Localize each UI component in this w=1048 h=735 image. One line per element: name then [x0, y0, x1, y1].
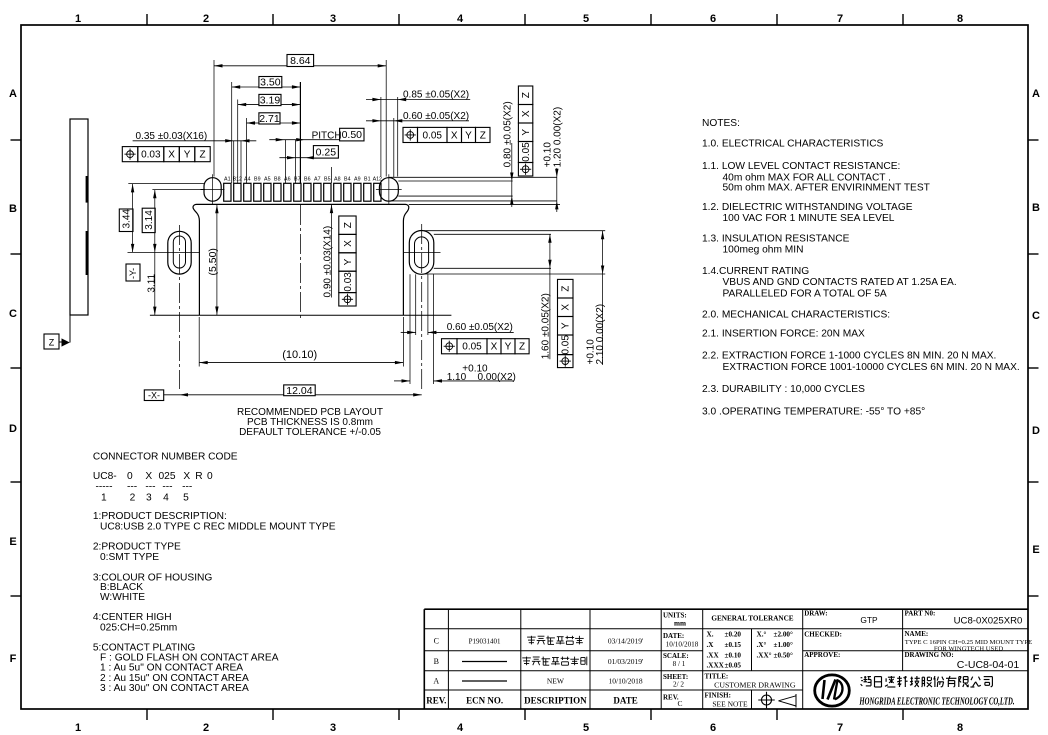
svg-text:1.4.CURRENT RATING: 1.4.CURRENT RATING: [702, 266, 809, 277]
svg-text:CHECKED:: CHECKED:: [804, 630, 842, 638]
svg-text:SCALE:: SCALE:: [663, 652, 689, 660]
svg-text:X: X: [521, 110, 532, 117]
svg-text:C: C: [677, 699, 682, 708]
svg-text:UC8-: UC8-: [93, 471, 117, 482]
svg-text:---: ---: [182, 482, 192, 493]
svg-text:C: C: [9, 308, 17, 320]
svg-text:1.1. LOW LEVEL CONTACT RESISTA: 1.1. LOW LEVEL CONTACT RESISTANCE:: [702, 161, 900, 172]
svg-text:2:PRODUCT TYPE: 2:PRODUCT TYPE: [93, 542, 181, 553]
svg-text:DESCRIPTION: DESCRIPTION: [524, 696, 587, 706]
svg-text:1.20 0.00(X2): 1.20 0.00(X2): [553, 107, 564, 168]
svg-text:0.90 ±0.03(X14): 0.90 ±0.03(X14): [323, 226, 334, 298]
svg-text:3: 3: [330, 13, 336, 25]
svg-text:0:SMT TYPE: 0:SMT TYPE: [100, 552, 159, 563]
svg-text:B1: B1: [364, 176, 371, 182]
svg-text:025: 025: [159, 471, 176, 482]
svg-text:1: 1: [75, 722, 81, 734]
svg-text:8 / 1: 8 / 1: [673, 660, 686, 668]
svg-text:0.05: 0.05: [561, 335, 572, 355]
svg-text:8: 8: [957, 13, 963, 25]
svg-text:0: 0: [127, 471, 133, 482]
svg-text:10/10/2018: 10/10/2018: [609, 677, 643, 686]
svg-text:10/10/2018: 10/10/2018: [666, 640, 699, 648]
svg-text:X: X: [451, 130, 458, 141]
svg-text:0.03: 0.03: [141, 150, 161, 161]
svg-text:F: F: [10, 653, 17, 665]
svg-text:X.°: X.°: [757, 631, 767, 639]
svg-text:B7: B7: [294, 176, 301, 182]
svg-text:C: C: [1032, 310, 1040, 322]
svg-text:8: 8: [957, 722, 963, 734]
svg-text:1: 1: [101, 492, 107, 503]
svg-text:7: 7: [837, 13, 843, 25]
svg-text:GENERAL TOLERANCE: GENERAL TOLERANCE: [711, 615, 793, 623]
svg-text:REV.: REV.: [426, 696, 446, 706]
svg-text:3 : Au 30u" ON CONTACT AREA: 3 : Au 30u" ON CONTACT AREA: [100, 683, 249, 694]
svg-text:0.03: 0.03: [343, 272, 354, 292]
svg-text:8.64: 8.64: [290, 55, 311, 67]
svg-text:B8: B8: [274, 176, 281, 182]
svg-text:ECN NO.: ECN NO.: [466, 696, 503, 706]
svg-text:SEE NOTE: SEE NOTE: [712, 699, 748, 708]
svg-text:DEFAULT TOLERANCE +/-0.05: DEFAULT TOLERANCE +/-0.05: [239, 427, 381, 438]
svg-text:0.05: 0.05: [423, 130, 443, 141]
svg-text:6: 6: [710, 722, 716, 734]
svg-text:DRAW:: DRAW:: [804, 609, 827, 617]
svg-text:4: 4: [163, 492, 169, 503]
svg-text:B: B: [9, 203, 17, 215]
svg-text:A9: A9: [354, 176, 361, 182]
svg-text:2.10 0.00(X2): 2.10 0.00(X2): [595, 304, 606, 365]
svg-text:B9: B9: [254, 176, 261, 182]
svg-text:Z: Z: [199, 150, 205, 161]
svg-text:5: 5: [583, 13, 589, 25]
svg-text:0: 0: [207, 471, 213, 482]
svg-text:2: 2: [130, 492, 136, 503]
svg-text:X: X: [343, 240, 354, 247]
svg-text:E: E: [1032, 544, 1039, 556]
svg-text:REV.: REV.: [663, 694, 679, 702]
svg-text:1: 1: [75, 13, 81, 25]
svg-text:4:CENTER HIGH: 4:CENTER HIGH: [93, 612, 172, 623]
svg-text:0.05: 0.05: [462, 342, 482, 353]
svg-text:4: 4: [457, 722, 464, 734]
svg-text:100meg ohm MIN: 100meg ohm MIN: [723, 245, 804, 256]
svg-text:B: B: [1032, 202, 1040, 214]
svg-text:X: X: [168, 150, 175, 161]
svg-text:A1: A1: [224, 176, 231, 182]
svg-text:1.60 ±0.05(X2): 1.60 ±0.05(X2): [541, 293, 552, 359]
svg-text:Z: Z: [561, 286, 572, 292]
svg-text:mm: mm: [674, 620, 686, 628]
svg-text:D: D: [1032, 425, 1040, 437]
svg-text:VBUS AND GND CONTACTS RATED AT: VBUS AND GND CONTACTS RATED AT 1.25A EA.: [723, 277, 957, 288]
svg-text:B4: B4: [344, 176, 351, 182]
svg-text:2.1. INSERTION FORCE: 20N MAX: 2.1. INSERTION FORCE: 20N MAX: [702, 329, 865, 340]
svg-text:0.50: 0.50: [342, 129, 363, 141]
svg-text:3.50: 3.50: [260, 77, 281, 89]
svg-text:3.14: 3.14: [144, 210, 155, 230]
svg-text:X: X: [183, 471, 190, 482]
svg-text:2: 2: [203, 722, 209, 734]
svg-text:1.10: 1.10: [447, 372, 467, 383]
svg-text:1:PRODUCT DESCRIPTION:: 1:PRODUCT DESCRIPTION:: [93, 511, 227, 522]
svg-text:025:CH=0.25mm: 025:CH=0.25mm: [100, 623, 177, 634]
svg-text:C-UC8-04-01: C-UC8-04-01: [957, 659, 1020, 671]
svg-text:---: ---: [127, 482, 137, 493]
svg-text:0.60 ±0.05(X2): 0.60 ±0.05(X2): [403, 111, 469, 122]
svg-text:3: 3: [146, 492, 152, 503]
svg-text:Y: Y: [561, 322, 572, 329]
svg-text:6: 6: [710, 13, 716, 25]
svg-text:±1.00°: ±1.00°: [774, 641, 794, 649]
svg-text:A7: A7: [314, 176, 321, 182]
svg-text:X: X: [491, 342, 498, 353]
svg-text:R: R: [195, 471, 202, 482]
svg-text:EXTRACTION FORCE 1001-10000 CY: EXTRACTION FORCE 1001-10000 CYCLES 6N MI…: [723, 362, 1020, 373]
svg-text:GTP: GTP: [860, 615, 878, 625]
svg-text:---: ---: [145, 482, 155, 493]
svg-text:Z: Z: [49, 338, 55, 348]
svg-text:±0.50°: ±0.50°: [774, 652, 794, 660]
svg-text:TITLE:: TITLE:: [705, 673, 729, 681]
svg-text:.X°: .X°: [757, 641, 767, 649]
svg-text:UC8:USB 2.0 TYPE C REC MIDDLE: UC8:USB 2.0 TYPE C REC MIDDLE MOUNT TYPE: [100, 522, 336, 533]
svg-text:X: X: [561, 304, 572, 311]
svg-text:X.: X.: [707, 631, 714, 639]
svg-text:2/ 2: 2/ 2: [673, 681, 684, 689]
svg-text:Z: Z: [480, 130, 486, 141]
svg-text:1.2. DIELECTRIC WITHSTANDING V: 1.2. DIELECTRIC WITHSTANDING VOLTAGE: [702, 202, 913, 213]
svg-text:1.3. INSULATION RESISTANCE: 1.3. INSULATION RESISTANCE: [702, 234, 850, 245]
svg-text:100 VAC FOR 1 MINUTE SEA LEVEL: 100 VAC FOR 1 MINUTE SEA LEVEL: [723, 213, 895, 224]
svg-text:.X: .X: [707, 641, 715, 649]
svg-text:HONGRIDA ELECTRONIC TECHNOLOGY: HONGRIDA ELECTRONIC TECHNOLOGY CO,LTD.: [859, 695, 1015, 707]
svg-text:Y: Y: [521, 129, 532, 136]
svg-text:±0.20: ±0.20: [725, 631, 742, 639]
svg-text:.XXX: .XXX: [707, 662, 725, 670]
svg-text:UNITS:: UNITS:: [663, 612, 687, 620]
svg-text:D: D: [9, 423, 17, 435]
svg-text:A4: A4: [244, 176, 251, 182]
svg-text:A8: A8: [334, 176, 341, 182]
svg-text:E: E: [9, 536, 16, 548]
svg-text:12.04: 12.04: [286, 385, 312, 397]
svg-text:DATE:: DATE:: [663, 632, 684, 640]
svg-text:±0.05: ±0.05: [725, 662, 742, 670]
svg-text:0.05: 0.05: [521, 142, 532, 162]
svg-text:5: 5: [183, 492, 189, 503]
svg-text:A: A: [433, 677, 439, 686]
svg-text:A: A: [9, 88, 17, 100]
svg-text:2.71: 2.71: [259, 113, 280, 125]
svg-text:B5: B5: [324, 176, 331, 182]
svg-text:(10.10): (10.10): [282, 349, 317, 361]
svg-text:-----: -----: [96, 482, 113, 493]
svg-text:0.00(X2): 0.00(X2): [478, 372, 516, 383]
svg-text:(5.50): (5.50): [207, 248, 219, 275]
svg-text:CUSTOMER DRAWING: CUSTOMER DRAWING: [714, 681, 796, 690]
svg-text:UC8-0X025XR0: UC8-0X025XR0: [954, 616, 1023, 627]
svg-text:F: F: [1033, 653, 1040, 665]
svg-text:NOTES:: NOTES:: [702, 118, 740, 129]
svg-text:PARALLELED FOR A TOTAL OF 5A: PARALLELED FOR A TOTAL OF 5A: [723, 288, 887, 299]
svg-text:B6: B6: [304, 176, 311, 182]
svg-text:Y: Y: [343, 258, 354, 265]
svg-text:0.60 ±0.05(X2): 0.60 ±0.05(X2): [447, 322, 513, 333]
svg-text:CONNECTOR NUMBER CODE: CONNECTOR NUMBER CODE: [93, 452, 238, 463]
svg-text:2.3. DURABILITY : 10,000 CYCLE: 2.3. DURABILITY : 10,000 CYCLES: [702, 384, 865, 395]
svg-text:2: 2: [203, 13, 209, 25]
svg-text:3.19: 3.19: [260, 95, 281, 107]
svg-text:3.0 .OPERATING TEMPERATURE: -5: 3.0 .OPERATING TEMPERATURE: -55° TO +85°: [702, 407, 925, 418]
svg-text:0.25: 0.25: [316, 146, 337, 158]
svg-text:1 : Au 5u" ON CONTACT AREA: 1 : Au 5u" ON CONTACT AREA: [100, 663, 243, 674]
svg-text:C: C: [434, 637, 439, 646]
svg-text:2.2. EXTRACTION FORCE 1-1000 C: 2.2. EXTRACTION FORCE 1-1000 CYCLES 8N M…: [702, 351, 996, 362]
svg-text:DRAWING NO:: DRAWING NO:: [905, 651, 954, 659]
svg-text:Z: Z: [343, 222, 354, 228]
svg-text:A5: A5: [264, 176, 271, 182]
svg-text:±0.10: ±0.10: [725, 652, 742, 660]
svg-text:Z: Z: [521, 92, 532, 98]
svg-text:Y: Y: [465, 130, 472, 141]
svg-text:.XX°: .XX°: [757, 652, 772, 660]
svg-text:5: 5: [583, 722, 589, 734]
svg-text:0.35 ±0.03(X16): 0.35 ±0.03(X16): [136, 131, 208, 142]
svg-text:7: 7: [837, 722, 843, 734]
svg-text:-X-: -X-: [148, 390, 160, 400]
svg-text:P19031401: P19031401: [469, 638, 501, 646]
svg-text:3.44: 3.44: [122, 209, 133, 229]
svg-text:3: 3: [330, 722, 336, 734]
svg-text:.XX: .XX: [707, 652, 720, 660]
svg-text:50m ohm MAX. AFTER ENVIRINMENT: 50m ohm MAX. AFTER ENVIRINMENT TEST: [723, 183, 930, 194]
svg-text:NAME:: NAME:: [905, 630, 929, 638]
svg-text:4: 4: [457, 13, 464, 25]
svg-text:APPROVE:: APPROVE:: [804, 651, 840, 659]
svg-text:X: X: [145, 471, 152, 482]
svg-text:03/14/2019': 03/14/2019': [608, 637, 644, 646]
svg-text:±0.15: ±0.15: [725, 641, 742, 649]
svg-text:2.0. MECHANICAL CHARACTERISTIC: 2.0. MECHANICAL CHARACTERISTICS:: [702, 310, 890, 321]
svg-text:01/03/2019': 01/03/2019': [608, 657, 644, 666]
svg-text:B: B: [434, 657, 439, 666]
svg-text:Z: Z: [519, 342, 525, 353]
svg-text:Y: Y: [505, 342, 512, 353]
svg-text:A: A: [1032, 88, 1040, 100]
svg-text:-Y-: -Y-: [128, 268, 138, 279]
svg-text:0.85 ±0.05(X2): 0.85 ±0.05(X2): [403, 90, 469, 101]
svg-text:1.0. ELECTRICAL CHARACTERISTIC: 1.0. ELECTRICAL CHARACTERISTICS: [702, 139, 884, 150]
svg-text:0.80 ±0.05(X2): 0.80 ±0.05(X2): [503, 101, 514, 167]
svg-text:FINISH:: FINISH:: [705, 692, 731, 700]
svg-text:PART N0:: PART N0:: [905, 609, 936, 617]
svg-text:---: ---: [162, 482, 172, 493]
svg-text:3.11: 3.11: [146, 273, 157, 292]
svg-text:±2.00°: ±2.00°: [774, 631, 794, 639]
svg-text:W:WHITE: W:WHITE: [100, 592, 145, 603]
svg-text:DATE: DATE: [613, 696, 637, 706]
svg-text:NEW: NEW: [547, 677, 565, 686]
svg-text:Y: Y: [184, 150, 191, 161]
